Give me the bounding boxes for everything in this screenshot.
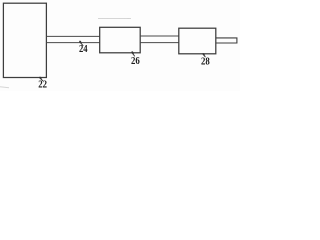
svg-text:28: 28 — [201, 57, 210, 68]
block 22 (left tall rectangle) — [3, 3, 46, 77]
leader line for label 28 — [203, 54, 206, 57]
leader line for label 22 — [39, 78, 43, 81]
block 28 (right rectangle) — [179, 28, 216, 54]
faint scan streak above block 26 — [98, 17, 131, 19]
wire (top line, block 26 to block 28) — [140, 35, 179, 37]
arrowhead for label 22 — [39, 77, 42, 80]
block 26 (middle rectangle) — [100, 27, 141, 53]
wire (bottom line, block 26 to block 28) — [140, 42, 179, 44]
leader line for label 26 — [132, 52, 135, 56]
faint scan streak bottom-left — [0, 87, 9, 88]
leader line for label 24 — [79, 42, 83, 46]
arrowhead for label 24 — [79, 41, 82, 44]
wire (top line, block 22 to block 26) — [46, 35, 99, 37]
svg-text:26: 26 — [131, 56, 140, 67]
arrowhead for label 26 — [131, 51, 134, 54]
wire (bottom line, block 22 to block 26) — [46, 42, 99, 44]
arrowhead for label 28 — [202, 53, 205, 56]
svg-text:22: 22 — [38, 80, 47, 91]
stub connector on right of block 28 — [216, 38, 237, 43]
svg-text:24: 24 — [79, 44, 88, 55]
